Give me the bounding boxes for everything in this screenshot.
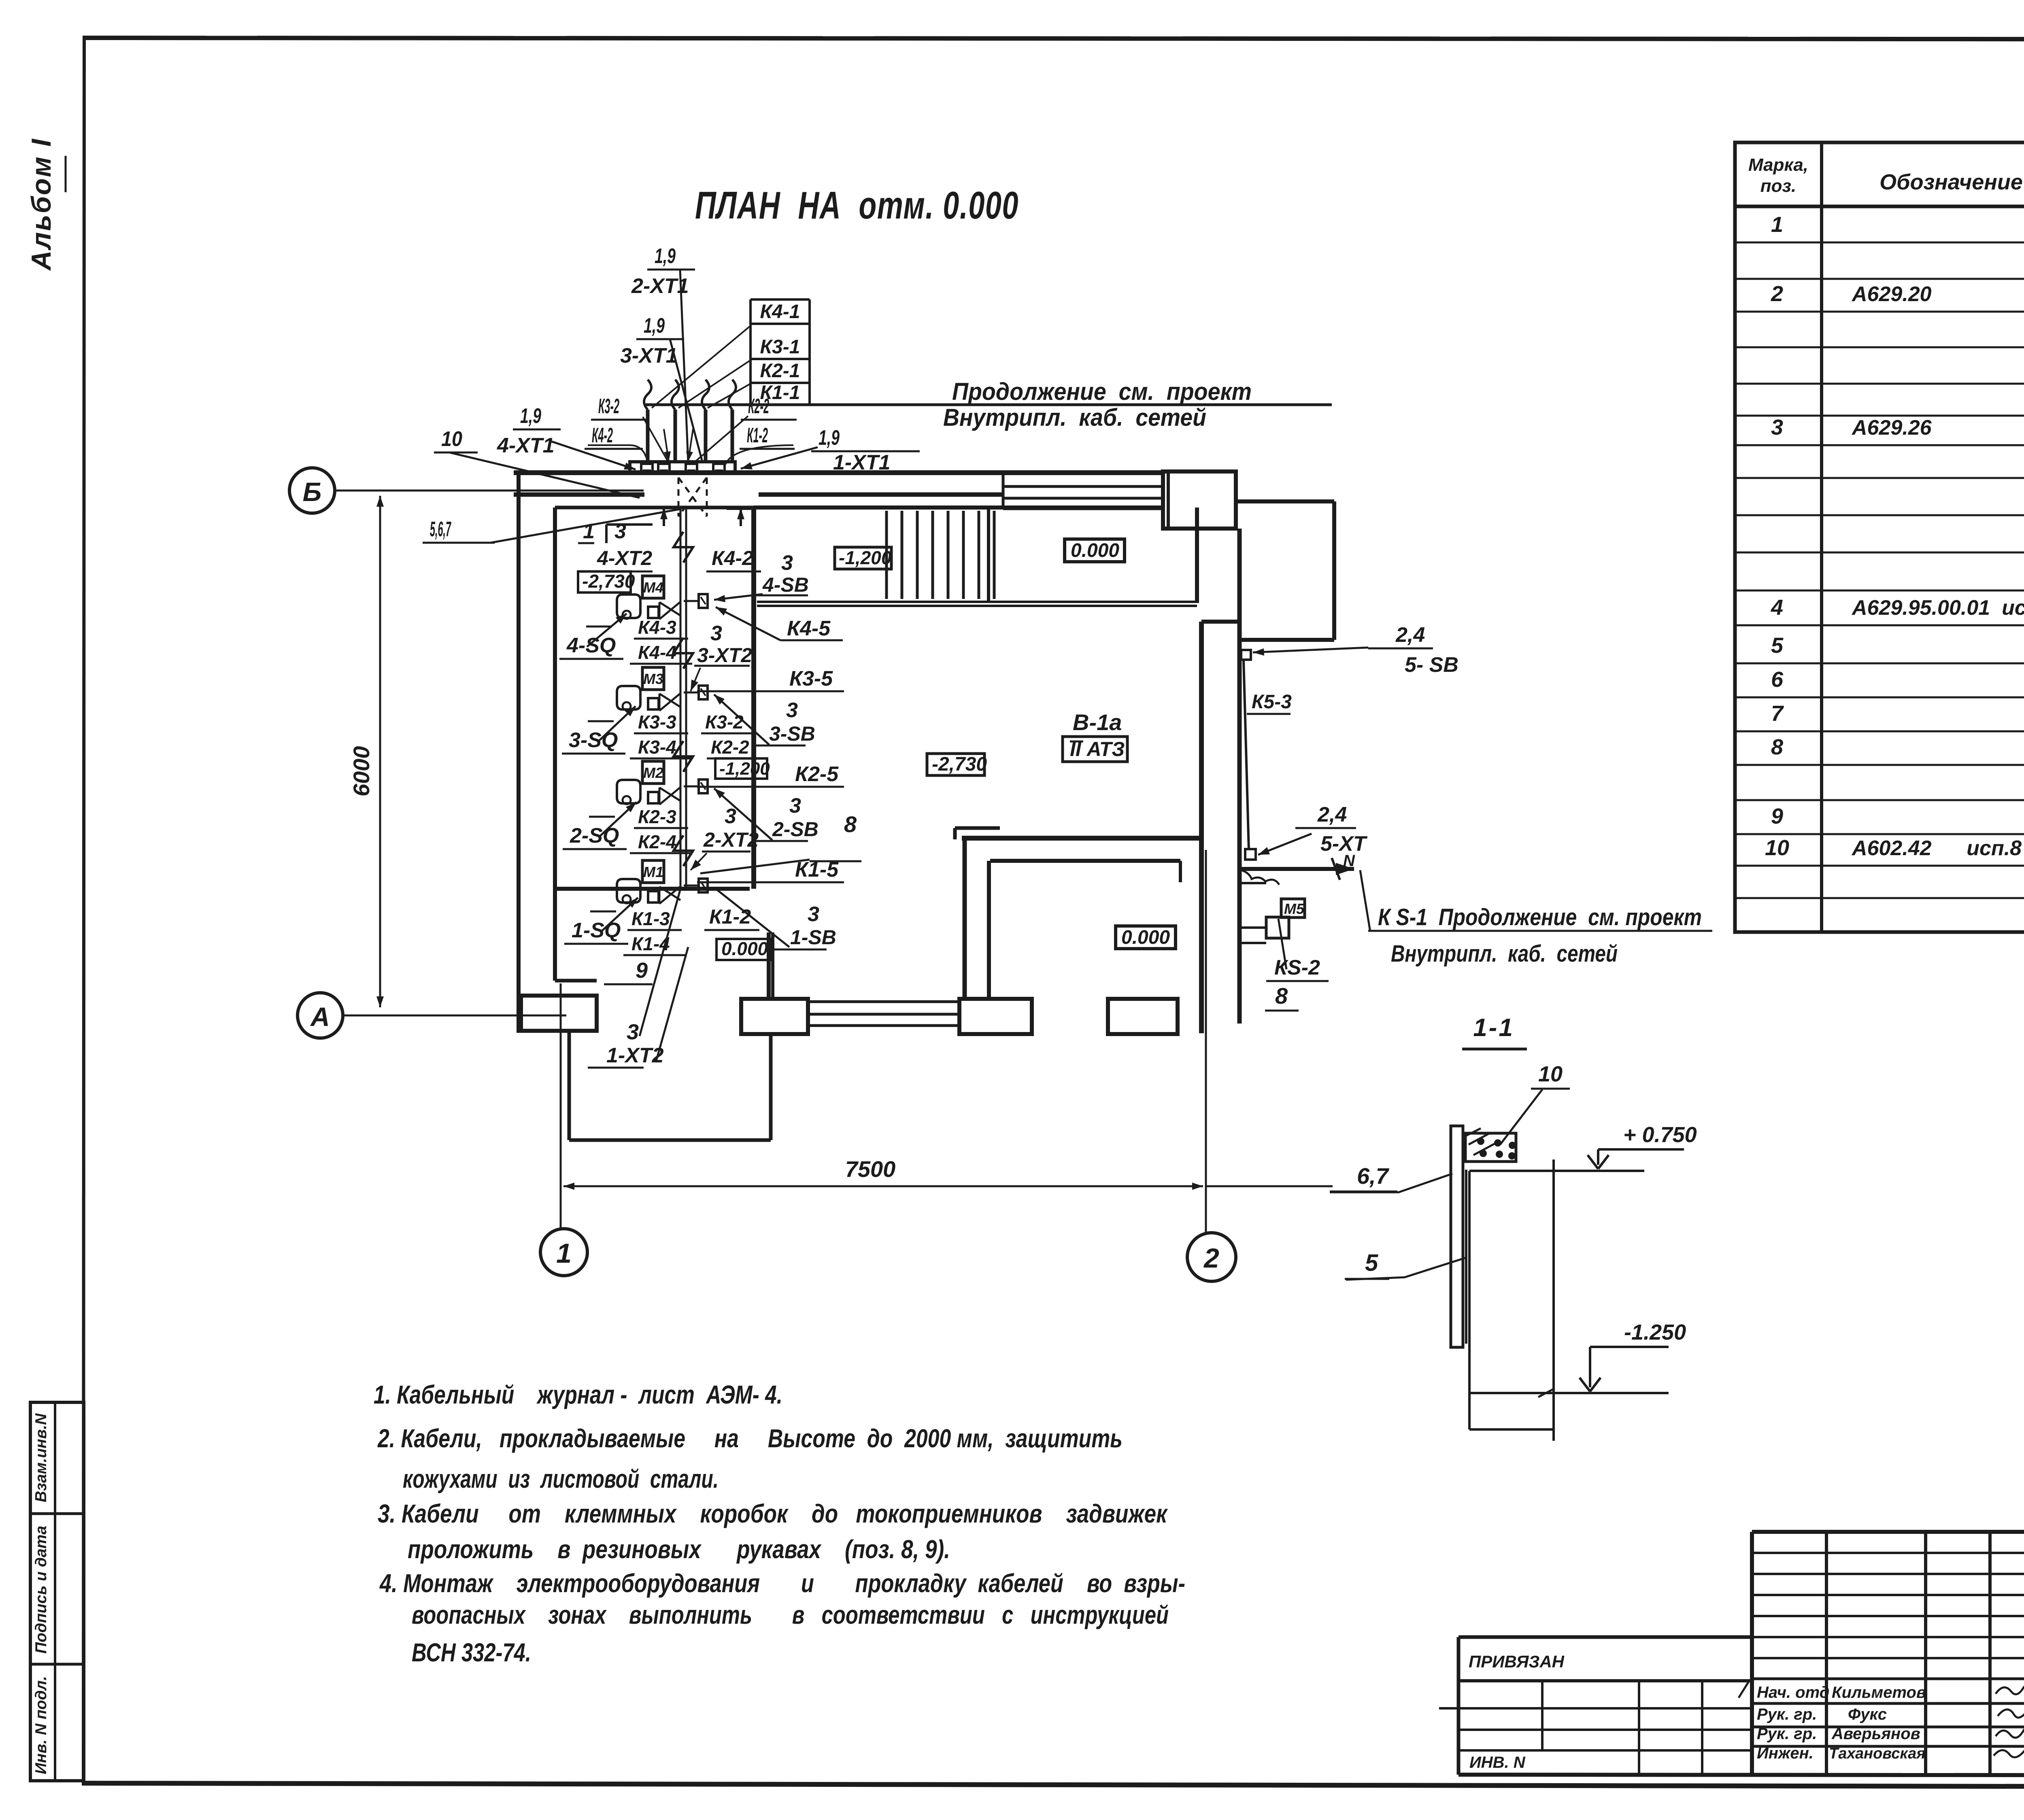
- svg-text:Фукс: Фукс: [1848, 1705, 1887, 1723]
- svg-text:А629.20: А629.20: [1851, 282, 1932, 306]
- svg-text:К2-5: К2-5: [795, 762, 839, 786]
- leader 10 to bracket: [1500, 1089, 1542, 1145]
- wall: top exterior inner face left of entry: [514, 493, 644, 497]
- svg-text:3: 3: [789, 794, 801, 818]
- ПРИВЯЗАН block: [1458, 1635, 1752, 1639]
- top-right room walls: [987, 509, 990, 602]
- svg-text:К3-3: К3-3: [638, 711, 676, 733]
- label ladder left edge: [749, 299, 752, 405]
- bracket with tube cuts (hatched box): [1465, 1133, 1516, 1162]
- svg-text:Рук. гр.: Рук. гр.: [1757, 1725, 1817, 1743]
- leader from 4-ХТ1 to entry: [551, 441, 636, 469]
- drawing frame bottom border: [82, 1781, 2024, 1790]
- wall: bottom-left room lower ledge: [555, 979, 597, 983]
- svg-text:5: 5: [1365, 1250, 1378, 1276]
- svg-text:К1-2: К1-2: [747, 424, 768, 447]
- svg-text:К2-1: К2-1: [760, 360, 800, 382]
- bottom-right room top-left notch: [955, 826, 1000, 830]
- svg-text:2-SQ: 2-SQ: [570, 824, 619, 847]
- svg-text:3: 3: [614, 520, 626, 543]
- svg-text:0.000: 0.000: [1071, 540, 1119, 561]
- svg-text:3: 3: [781, 551, 793, 575]
- parts table row line 3: [1735, 311, 2024, 313]
- svg-text:8: 8: [1275, 983, 1288, 1009]
- svg-text:5,6,7: 5,6,7: [430, 518, 451, 541]
- svg-text:6,7: 6,7: [1357, 1163, 1390, 1189]
- svg-text:10: 10: [441, 427, 462, 451]
- leader К3-2: [643, 417, 668, 461]
- motor М4: [642, 576, 664, 598]
- leader 4-SQ to motor: [587, 614, 627, 647]
- svg-text:Инв. N подл.: Инв. N подл.: [32, 1676, 50, 1774]
- svg-text:4: 4: [1771, 595, 1783, 620]
- north arrow line: [1238, 867, 1354, 871]
- svg-text:А: А: [310, 1002, 330, 1032]
- cable run jog symbols: [674, 532, 693, 563]
- svg-text:1-1: 1-1: [1473, 1014, 1514, 1042]
- svg-text:9: 9: [1771, 804, 1783, 828]
- svg-text:N: N: [1343, 852, 1355, 870]
- svg-text:-2,730: -2,730: [932, 754, 987, 775]
- parts table row line 16: [1735, 764, 2024, 766]
- svg-text:ПРИВЯЗАН: ПРИВЯЗАН: [1469, 1652, 1565, 1671]
- svg-text:-2,730: -2,730: [582, 571, 635, 592]
- svg-text:К2-2: К2-2: [748, 395, 769, 418]
- svg-text:3: 3: [1771, 415, 1783, 440]
- leader К4-2 to box: [588, 445, 648, 461]
- svg-text:К5-3: К5-3: [1252, 691, 1292, 713]
- svg-text:1-SВ: 1-SВ: [790, 926, 836, 949]
- svg-text:2-ХТ2: 2-ХТ2: [703, 828, 759, 851]
- incoming cable line 2 with break symbol: [674, 410, 677, 462]
- svg-text:7: 7: [1771, 701, 1784, 726]
- axis line Б: [335, 490, 644, 492]
- label -2.730 boxed hall: [927, 754, 984, 775]
- incoming cable line 3 with break symbol: [704, 410, 708, 462]
- stair area bottom thin double line: [757, 601, 1197, 603]
- parts table row line 15: [1735, 731, 2024, 733]
- parts table column line 1: [1820, 142, 1823, 932]
- valve bowtie М1: [659, 886, 680, 904]
- svg-text:3-SQ: 3-SQ: [569, 728, 618, 752]
- axis line 2: [1205, 850, 1207, 1233]
- label ladder top line: [750, 298, 810, 301]
- svg-text:К1-2: К1-2: [709, 905, 751, 928]
- wall: corridor top line: [555, 506, 754, 510]
- parts table row line 11: [1735, 590, 2024, 592]
- axis line 1: [560, 983, 562, 1229]
- svg-text:К3-4: К3-4: [638, 737, 676, 758]
- node label К3-1: [750, 358, 810, 360]
- svg-text:К4-3: К4-3: [638, 617, 676, 638]
- bracket hatch: [1466, 1128, 1496, 1155]
- svg-text:6000: 6000: [349, 746, 374, 796]
- svg-text:Кильметов: Кильметов: [1832, 1684, 1926, 1701]
- parts table row line 13: [1735, 663, 2024, 665]
- svg-text:К3-2: К3-2: [705, 711, 744, 733]
- svg-text:10: 10: [1765, 836, 1789, 860]
- parts table row line 4: [1735, 346, 2024, 348]
- incoming cable line 1 with break symbol: [646, 410, 650, 462]
- grid bubble 1: [540, 1229, 587, 1276]
- bottom opening stair lines: [808, 1000, 959, 1003]
- ПРИВЯЗАН sub-grid columns: [1541, 1681, 1544, 1750]
- main cable run vertical (double): [680, 508, 682, 890]
- svg-text:2: 2: [1203, 1243, 1219, 1274]
- node label К4-1: [750, 323, 810, 325]
- parts table row line 5: [1735, 383, 2024, 385]
- lower level line: [1469, 1392, 1669, 1394]
- svg-text:М4: М4: [643, 579, 663, 596]
- cable riser К5-3: [1244, 660, 1249, 850]
- svg-text:поз.: поз.: [1760, 176, 1796, 196]
- wall: top exterior outer face: [514, 470, 1163, 475]
- svg-text:К2-2: К2-2: [711, 737, 749, 758]
- valve bowtie М2: [659, 787, 680, 805]
- leader from 5,6,7: [491, 509, 680, 543]
- svg-text:Нач. отд: Нач. отд: [1757, 1684, 1829, 1701]
- label -1.200 boxed stairs: [835, 547, 891, 569]
- wall stub above bottom pillar: [767, 932, 771, 999]
- title block left edge: [1750, 1532, 1754, 1775]
- stair flight top line 1: [1003, 485, 1163, 488]
- parts table row line 8: [1735, 477, 2024, 479]
- connector box 5-ХТ: [1245, 849, 1256, 860]
- svg-text:К2-4: К2-4: [638, 831, 676, 852]
- parts table outer frame: [1735, 142, 2024, 932]
- motor М3: [642, 667, 664, 690]
- title block small rows left part: [1752, 1552, 2024, 1554]
- svg-text:1,9: 1,9: [655, 244, 676, 268]
- leader КS-1: [1363, 927, 1378, 931]
- label -2.730 boxed upper: [578, 571, 631, 593]
- svg-text:1: 1: [583, 520, 595, 543]
- wall: top rooms inner face: [754, 505, 1163, 510]
- wall: corridor left wall: [553, 508, 557, 981]
- wall face line below bracket: [1468, 1171, 1471, 1429]
- title block bottom line: [1458, 1775, 2024, 1775]
- leader К1-2: [725, 445, 793, 465]
- svg-text:К2-3: К2-3: [638, 806, 676, 827]
- svg-text:К1-3: К1-3: [631, 908, 670, 929]
- svg-text:А602.42 исп.8: А602.42 исп.8: [1851, 837, 2022, 860]
- landing block top right of stairs: [1163, 471, 1236, 529]
- svg-text:4-SQ: 4-SQ: [566, 634, 616, 657]
- dashed cross below entry in wall: [678, 478, 680, 516]
- label 0.000 boxed corridor: [716, 939, 770, 960]
- svg-text:3-ХТ2: 3-ХТ2: [697, 644, 752, 667]
- svg-text:1,9: 1,9: [819, 426, 840, 450]
- svg-text:6: 6: [1771, 667, 1784, 692]
- pushbutton box near М1: [699, 879, 708, 892]
- svg-text:9: 9: [636, 958, 648, 983]
- grid bubble 2: [1187, 1233, 1236, 1281]
- pushbutton box near М3: [699, 686, 708, 699]
- continuation underline: [646, 404, 1332, 406]
- node label К2-1: [750, 382, 810, 384]
- bottom pillar right: [1108, 999, 1178, 1034]
- svg-text:4. Монтаж электрооборудован: 4. Монтаж электрооборудования и прокладк…: [379, 1569, 1185, 1598]
- stair flight top line 3: [1003, 508, 1163, 510]
- svg-text:К4-1: К4-1: [760, 301, 800, 323]
- parts table row line 7: [1735, 444, 2024, 446]
- parts table row line 20: [1735, 897, 2024, 899]
- wall: top exterior inner face right of entry: [759, 493, 1003, 497]
- svg-text:+ 0.750: + 0.750: [1623, 1123, 1697, 1147]
- incoming cable line 4 with break symbol: [731, 410, 734, 462]
- leader from 1-ХТ1 to entry: [741, 447, 818, 469]
- diagonal leaders from ladder to cables: [652, 326, 750, 408]
- label 4-SQ: [586, 626, 612, 628]
- svg-text:1: 1: [1771, 212, 1783, 237]
- pushbutton box near М4: [699, 594, 708, 608]
- parts table row line 17: [1735, 799, 2024, 801]
- svg-text:0.000: 0.000: [1121, 927, 1170, 948]
- svg-text:1,9: 1,9: [520, 404, 541, 428]
- ПРИВЯЗАН sub-grid rows: [1439, 1707, 1752, 1710]
- svg-text:2,4: 2,4: [1317, 803, 1347, 826]
- bottom tank outline below plan: [568, 1031, 571, 1140]
- valve bowtie М4: [659, 602, 680, 619]
- svg-text:4-ХТ1: 4-ХТ1: [497, 434, 555, 457]
- parts table row line 12: [1735, 624, 2024, 626]
- bottom pillar middle: [741, 999, 808, 1034]
- bottom pillar left: [521, 996, 597, 1031]
- svg-text:Тахановская: Тахановская: [1829, 1745, 1926, 1762]
- parts table row line 18: [1735, 833, 2024, 835]
- leader КS-2 to M5: [1278, 919, 1286, 969]
- title block: outer top edge: [1752, 1530, 2024, 1534]
- valve bowtie М3: [659, 693, 680, 711]
- underline of Альбом I: [65, 156, 67, 192]
- riser connection lines near M5: [1238, 882, 1266, 884]
- leader 4-SВ to button: [714, 594, 763, 600]
- label -1.200 boxed mid: [715, 758, 767, 779]
- bottom pillar middle-right: [959, 999, 1032, 1034]
- svg-text:3: 3: [808, 903, 819, 926]
- svg-text:К4-4: К4-4: [638, 642, 676, 663]
- svg-text:7500: 7500: [845, 1156, 896, 1182]
- left wall lower segment to pillar: [519, 996, 523, 1031]
- label 0.000 boxed bottom-right room: [1116, 926, 1176, 949]
- svg-text:М3: М3: [643, 671, 663, 687]
- svg-text:1-SQ: 1-SQ: [572, 919, 621, 942]
- svg-text:М2: М2: [643, 765, 663, 781]
- svg-text:К1-5: К1-5: [795, 858, 839, 881]
- svg-text:2,4: 2,4: [1395, 623, 1425, 647]
- svg-text:3: 3: [725, 805, 736, 828]
- bottom-right room walls: [962, 836, 1204, 841]
- terminal frame (поз.10) entry box above wall: [630, 462, 735, 473]
- leader 2,4/5-SВ to riser: [1253, 648, 1368, 652]
- arrows into entry box: [664, 429, 669, 461]
- parts table row line 6: [1735, 415, 2024, 417]
- svg-text:воопасных зонах выполнит: воопасных зонах выполнить в соответствии…: [412, 1600, 1169, 1629]
- svg-text:Внутрипл. каб. сетей: Внутрипл. каб. сетей: [1391, 941, 1618, 967]
- wall: bottom-left room top wall: [555, 887, 750, 891]
- wall: main right wall band: [1199, 622, 1204, 1033]
- parts table row line 19: [1735, 865, 2024, 867]
- parts table row line 10: [1735, 552, 2024, 554]
- leader from 10 to entry: [449, 452, 640, 498]
- label 1-SQ: [590, 911, 616, 913]
- svg-text:ПЛАН НА отм. 0.000: ПЛАН НА отм. 0.000: [695, 184, 1019, 227]
- svg-text:К S-1 Продолжение см. проект: К S-1 Продолжение см. проект: [1378, 904, 1702, 930]
- side stamp divider 1: [30, 1512, 84, 1515]
- handwritten signatures: [1996, 1683, 2024, 1694]
- svg-text:Б: Б: [303, 477, 322, 507]
- label 0.000 boxed top-right room: [1065, 539, 1125, 562]
- grid bubble Б: [289, 468, 335, 513]
- svg-text:К4-2: К4-2: [712, 547, 753, 569]
- drawing frame left border: [82, 36, 86, 1786]
- grid bubble А: [298, 993, 343, 1038]
- leader 3-SВ: [714, 694, 769, 745]
- svg-text:8: 8: [844, 811, 857, 837]
- signature row lines: [1752, 1678, 2024, 1680]
- svg-text:1. Кабельный журнал - лист: 1. Кабельный журнал - лист АЭМ- 4.: [374, 1380, 782, 1409]
- label ladder right edge: [808, 299, 811, 405]
- svg-text:4-SВ: 4-SВ: [762, 573, 809, 596]
- arrows at corridor top: [663, 508, 665, 526]
- svg-text:Инжен.: Инжен.: [1757, 1744, 1814, 1762]
- svg-text:М5: М5: [1284, 900, 1305, 917]
- svg-text:В-1а: В-1а: [1073, 709, 1122, 735]
- entry box sockets: [641, 464, 653, 472]
- parts table row line 9: [1735, 514, 2024, 516]
- side stamp strip outer box: [30, 1402, 84, 1781]
- svg-text:1,9: 1,9: [644, 314, 665, 338]
- svg-text:3: 3: [786, 699, 798, 722]
- vertical profile plate К238: [1451, 1126, 1463, 1347]
- parts table row line 14: [1735, 697, 2024, 699]
- label 3-SQ: [588, 720, 614, 722]
- leader К2-2: [695, 416, 748, 461]
- parts table row line 2: [1735, 278, 2024, 280]
- svg-text:Рук. гр.: Рук. гр.: [1757, 1705, 1817, 1723]
- svg-text:5: 5: [1771, 633, 1784, 658]
- svg-text:1: 1: [556, 1238, 572, 1269]
- svg-text:К3-2: К3-2: [598, 395, 619, 418]
- leader 8: [700, 860, 810, 873]
- pushbutton box near М2: [699, 779, 708, 793]
- motor М5: [1281, 899, 1305, 917]
- svg-text:Внутрипл. каб. сетей: Внутрипл. каб. сетей: [943, 404, 1206, 431]
- wall: corridor right wall: [751, 508, 756, 889]
- svg-text:3-SВ: 3-SВ: [769, 722, 815, 745]
- svg-text:КS-2: КS-2: [1274, 956, 1320, 979]
- leader 2,4/5-ХТ: [1258, 834, 1312, 855]
- svg-text:Подпись и дата: Подпись и дата: [32, 1526, 50, 1654]
- svg-text:2. Кабели, прокладываемые: 2. Кабели, прокладываемые на Высоте до 2…: [377, 1424, 1123, 1453]
- svg-text:-1,200: -1,200: [839, 547, 892, 568]
- wall: left exterior outer face: [517, 470, 521, 1033]
- leader from 2-ХТ1 to entry: [680, 270, 688, 462]
- slanted tick before Нач.отд: [1739, 1682, 1749, 1698]
- svg-text:Взам.инв.N: Взам.инв.N: [32, 1413, 50, 1502]
- svg-text:5- SВ: 5- SВ: [1405, 653, 1458, 677]
- svg-text:1-ХТ1: 1-ХТ1: [833, 451, 891, 474]
- svg-text:Марка,: Марка,: [1748, 155, 1808, 175]
- svg-text:проложить в резиновых: проложить в резиновых рукавах (поз. 8, 9…: [408, 1535, 950, 1564]
- drawing frame top border: [83, 36, 2024, 42]
- stair flight top line 2: [1003, 497, 1163, 500]
- svg-text:Альбом I: Альбом I: [26, 138, 57, 271]
- svg-text:4-ХТ2: 4-ХТ2: [597, 547, 652, 569]
- svg-text:А629.26: А629.26: [1851, 416, 1932, 440]
- dimension line 6000 vertical: [379, 496, 381, 753]
- parts table header bottom line: [1735, 205, 2024, 208]
- svg-text:ИНВ. N: ИНВ. N: [1469, 1754, 1526, 1771]
- motor М2: [642, 761, 664, 784]
- bottom slab lines: [1469, 1428, 1554, 1431]
- stair flight left edge: [1002, 473, 1005, 509]
- svg-text:2-SВ: 2-SВ: [772, 818, 819, 841]
- svg-text:Продолжение см. проект: Продолжение см. проект: [952, 378, 1252, 405]
- leader 5: [1346, 1258, 1465, 1280]
- dimension line 7500 horizontal: [563, 1185, 883, 1187]
- svg-text:К3-1: К3-1: [760, 336, 800, 358]
- svg-text:3. Кабели от клеммных: 3. Кабели от клеммных коробок до токопри…: [378, 1499, 1168, 1528]
- motor М1: [642, 860, 664, 883]
- right protrusion room outline: [1236, 499, 1334, 503]
- vertical section line: [1552, 1160, 1555, 1441]
- svg-text:А629.95.00.01 исп.4: А629.95.00.01 исп.4: [1851, 596, 2024, 620]
- svg-text:2: 2: [1771, 282, 1783, 306]
- leader К4-5: [716, 607, 780, 640]
- axis line А: [343, 1015, 566, 1017]
- title block verticals: [1825, 1532, 1828, 1775]
- leaders from bottom labels up to corridor: [640, 890, 680, 1036]
- label 2-SQ: [589, 816, 615, 818]
- svg-text:Обозначение: Обозначение: [1879, 170, 2023, 194]
- svg-text:К4-2: К4-2: [592, 424, 613, 447]
- side stamp divider 2: [30, 1663, 84, 1666]
- leader 6,7: [1330, 1174, 1452, 1192]
- svg-text:8: 8: [1771, 735, 1783, 759]
- svg-text:3-ХТ1: 3-ХТ1: [620, 344, 678, 367]
- svg-text:Аверьянов: Аверьянов: [1831, 1725, 1920, 1743]
- svg-text:М1: М1: [643, 864, 663, 880]
- staircase vertical treads: [885, 511, 888, 599]
- label II АТЗ boxed: [1063, 737, 1127, 762]
- leader from 3-ХТ1: [670, 339, 702, 462]
- svg-text:1-ХТ2: 1-ХТ2: [606, 1044, 664, 1067]
- floor level line: [1469, 1170, 1644, 1172]
- parts table row line 1: [1735, 242, 2024, 244]
- svg-text:ВСН 332-74.: ВСН 332-74.: [412, 1638, 531, 1667]
- svg-text:кожухами из листовой стали.: кожухами из листовой стали.: [403, 1464, 719, 1493]
- svg-text:К4-5: К4-5: [787, 617, 831, 640]
- svg-text:10: 10: [1538, 1062, 1563, 1086]
- side stamp strip inner divider vertical: [54, 1402, 56, 1781]
- svg-text:К3-5: К3-5: [789, 667, 833, 690]
- svg-text:3: 3: [627, 1020, 639, 1044]
- svg-text:0.000: 0.000: [721, 938, 768, 959]
- svg-text:-1.250: -1.250: [1624, 1320, 1686, 1344]
- svg-text:3: 3: [710, 622, 722, 645]
- svg-text:-1,200: -1,200: [719, 759, 770, 779]
